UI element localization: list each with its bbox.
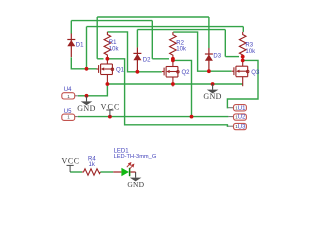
svg-text:10k: 10k bbox=[176, 47, 187, 53]
svg-text:U5: U5 bbox=[64, 109, 72, 115]
svg-text:Q1: Q1 bbox=[116, 68, 125, 74]
svg-text:1: 1 bbox=[67, 115, 70, 120]
svg-text:R2: R2 bbox=[176, 40, 184, 46]
svg-text:D3: D3 bbox=[213, 54, 221, 60]
svg-text:D1: D1 bbox=[76, 42, 84, 48]
svg-text:VCC: VCC bbox=[61, 156, 79, 165]
svg-text:10k: 10k bbox=[109, 46, 120, 52]
svg-text:LED-TH-3mm_G: LED-TH-3mm_G bbox=[114, 154, 157, 160]
svg-text:GND: GND bbox=[127, 180, 144, 189]
svg-text:Q2: Q2 bbox=[182, 70, 191, 76]
svg-text:1: 1 bbox=[67, 94, 70, 99]
svg-text:R3: R3 bbox=[245, 43, 253, 49]
svg-text:GND: GND bbox=[203, 92, 222, 101]
svg-text:R1: R1 bbox=[109, 40, 117, 46]
svg-text:GND: GND bbox=[77, 104, 96, 113]
svg-text:D2: D2 bbox=[143, 57, 151, 63]
svg-text:1k: 1k bbox=[89, 162, 96, 168]
svg-text:U4: U4 bbox=[64, 87, 72, 93]
svg-text:U2: U2 bbox=[238, 115, 246, 121]
svg-text:10k: 10k bbox=[245, 49, 256, 55]
svg-text:U1: U1 bbox=[238, 106, 246, 112]
svg-text:VCC: VCC bbox=[101, 102, 121, 111]
svg-text:Q3: Q3 bbox=[251, 70, 260, 76]
svg-text:U3: U3 bbox=[238, 124, 246, 130]
